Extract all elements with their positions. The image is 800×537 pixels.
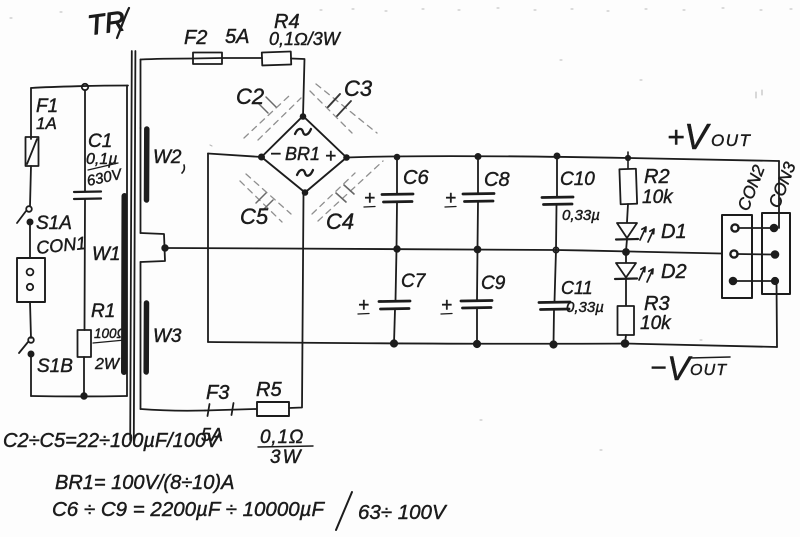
junction R2 top	[627, 152, 629, 168]
resistor R5	[257, 402, 289, 416]
bridge AC tilde top	[295, 129, 311, 135]
capacitor C6	[396, 157, 398, 194]
capacitor C1	[74, 190, 101, 193]
svg-text:+: +	[364, 188, 375, 209]
winding W3	[143, 303, 149, 372]
svg-text:C7: C7	[401, 271, 427, 292]
wire zero rail	[167, 248, 721, 254]
winding W1	[126, 86, 128, 397]
wire primary bottom	[31, 395, 127, 397]
wire R2 to D1	[627, 204, 628, 222]
svg-text:CON2: CON2	[734, 162, 769, 213]
svg-text:0,1µ: 0,1µ	[86, 151, 117, 168]
svg-text:S1A: S1A	[36, 213, 72, 234]
junction C8/C9 zero rail	[475, 247, 481, 253]
fuse F3	[208, 404, 210, 416]
wire primary top	[31, 86, 128, 89]
svg-text:R5: R5	[256, 379, 282, 401]
svg-text:10k: 10k	[642, 187, 674, 208]
junction center tap	[162, 245, 168, 251]
svg-text:C9: C9	[481, 273, 506, 294]
svg-text:R2: R2	[644, 166, 670, 188]
wire R4 to bridge top	[291, 59, 305, 117]
capacitor C7	[396, 249, 397, 301]
wire W3 down	[140, 302, 142, 409]
connector CON2	[734, 162, 769, 213]
resistor R2	[619, 169, 637, 205]
svg-text:F3: F3	[206, 382, 229, 404]
svg-text:1A: 1A	[36, 114, 57, 133]
wire C1 branch upper	[84, 90, 86, 191]
svg-text:C2: C2	[236, 84, 264, 109]
svg-text:10k: 10k	[640, 313, 672, 334]
bridge BR1	[262, 116, 347, 193]
wire S1A to CON1	[29, 225, 31, 258]
junction C6/C7 zero rail	[394, 246, 400, 252]
wire left side upper	[30, 88, 32, 139]
connector CON1	[35, 233, 87, 258]
fuse F1	[26, 137, 39, 166]
svg-text:CON3: CON3	[765, 159, 800, 210]
svg-text:+: +	[441, 295, 452, 316]
junction C11 bottom	[550, 341, 556, 347]
label +VOUT	[667, 116, 752, 157]
svg-text:63÷ 100V: 63÷ 100V	[358, 501, 448, 524]
diode D1 (LED)	[617, 223, 637, 238]
winding W2	[144, 129, 150, 200]
wire bridge minus to left	[208, 154, 262, 158]
note C6-C9 values	[52, 498, 448, 524]
svg-text:2W: 2W	[94, 356, 121, 373]
svg-text:OUT: OUT	[711, 131, 752, 150]
wire CON2 pin2 to CON3 pin2	[737, 253, 772, 256]
capacitor C2 (snubber, dashed)	[244, 95, 301, 140]
bridge AC tilde bottom	[297, 170, 313, 176]
wire D1 to zero rail	[626, 239, 627, 251]
junction R3 bottom	[622, 340, 629, 347]
junction D1/D2 zero rail	[623, 249, 629, 255]
junction C7 bottom	[391, 340, 397, 346]
wire W3 to F3	[141, 409, 206, 411]
svg-text:0,33µ: 0,33µ	[566, 299, 604, 316]
wire R5 to bridge bottom	[289, 193, 304, 408]
wire R3 to minus rail	[625, 335, 626, 343]
svg-text:C8: C8	[484, 169, 510, 191]
capacitor C9	[476, 250, 479, 301]
svg-text:BR1= 100V/(8÷10)A: BR1= 100V/(8÷10)A	[55, 472, 234, 494]
svg-text:V: V	[684, 116, 711, 157]
svg-text:+: +	[325, 146, 336, 167]
wire F2 to R4	[222, 57, 262, 59]
wire center tap to W3	[140, 262, 142, 302]
transformer core	[130, 51, 132, 440]
wire W2 to center tap	[140, 128, 142, 233]
svg-text:C2÷C5=22÷100µF/100V: C2÷C5=22÷100µF/100V	[3, 430, 221, 452]
svg-text:C3: C3	[344, 76, 373, 101]
transformer TR1 label	[86, 5, 127, 41]
svg-text:F2: F2	[184, 27, 207, 49]
svg-text:C10: C10	[560, 169, 595, 190]
capacitor C11	[555, 250, 557, 302]
note C2-C5 values	[3, 430, 221, 452]
svg-text:0,33µ: 0,33µ	[562, 207, 600, 224]
wire S1B to bottom	[30, 356, 32, 396]
svg-text:C6: C6	[403, 167, 429, 189]
capacitor C3 (snubber, dashed)	[310, 84, 377, 133]
fuse F2	[193, 53, 222, 65]
wire CON1 to S1B	[30, 302, 31, 338]
svg-text:D2: D2	[661, 261, 687, 283]
wire minus rail vertical	[207, 154, 209, 343]
junction C10/C11 zero rail	[553, 247, 558, 252]
resistor R4	[262, 51, 291, 65]
resistor R3	[618, 306, 635, 335]
svg-text:−: −	[270, 144, 281, 165]
node C1 branch top	[82, 84, 88, 90]
wire D2 to R3	[625, 279, 627, 305]
svg-text:+: +	[445, 188, 456, 209]
svg-text:R3: R3	[644, 293, 670, 315]
svg-text:C6 ÷ C9 = 2200µF ÷ 10000µF: C6 ÷ C9 = 2200µF ÷ 10000µF	[52, 498, 325, 521]
wire CON2 pin1 to CON3 pin1	[738, 227, 771, 229]
svg-text:R1: R1	[91, 301, 115, 322]
wire plus rail	[347, 156, 780, 161]
svg-text:W3: W3	[153, 326, 182, 347]
svg-text:W2: W2	[153, 147, 182, 168]
junction primary bottom / C1 branch	[81, 393, 87, 399]
switch S1A	[26, 206, 32, 212]
svg-text:OUT: OUT	[690, 362, 727, 379]
svg-text:−: −	[650, 352, 666, 383]
capacitor C8	[477, 157, 479, 194]
label -VOUT	[650, 350, 727, 388]
connector CON3	[765, 159, 800, 210]
wire plus rail to CON3 riser	[778, 161, 780, 228]
capacitor C10	[556, 156, 558, 197]
svg-text:C1: C1	[88, 131, 112, 152]
svg-text:TR: TR	[86, 5, 127, 41]
svg-text:CON1: CON1	[35, 233, 87, 258]
diode D2 (LED)	[625, 253, 627, 262]
svg-text:C5: C5	[240, 204, 269, 229]
svg-text:+: +	[358, 295, 369, 316]
wire C1 to R1	[84, 200, 87, 330]
capacitor C5 (snubber, dashed)	[240, 174, 291, 222]
resistor R1	[78, 330, 92, 357]
svg-text:0,1Ω: 0,1Ω	[260, 427, 304, 448]
svg-text:BR1: BR1	[285, 144, 320, 164]
capacitor C4 (snubber, dashed)	[312, 161, 383, 221]
center tap jog	[141, 233, 166, 262]
svg-text:C11: C11	[561, 278, 593, 298]
wire CON3 bottom riser	[776, 281, 779, 347]
TR1 slash stroke	[117, 8, 129, 38]
bridge vertex dots	[301, 114, 306, 119]
junction C9 bottom	[474, 341, 480, 347]
wire secondary top	[140, 60, 142, 129]
switch S1B	[28, 337, 34, 343]
svg-text:0,1Ω/3W: 0,1Ω/3W	[269, 29, 342, 49]
wire minus rail horizontal	[208, 342, 777, 347]
svg-text:C4: C4	[326, 209, 354, 234]
wire F1 to S1A	[30, 166, 31, 206]
wire R1 to bottom	[83, 357, 85, 396]
svg-text:S1B: S1B	[37, 356, 73, 377]
svg-text:3W: 3W	[270, 447, 303, 468]
svg-text:W1: W1	[92, 244, 121, 265]
svg-text:+: +	[667, 121, 685, 154]
wire CON2 pin3 to CON3 pin3	[736, 280, 772, 282]
svg-text:D1: D1	[661, 221, 687, 243]
note BR1 value	[55, 472, 234, 494]
svg-text:5A: 5A	[225, 26, 249, 48]
